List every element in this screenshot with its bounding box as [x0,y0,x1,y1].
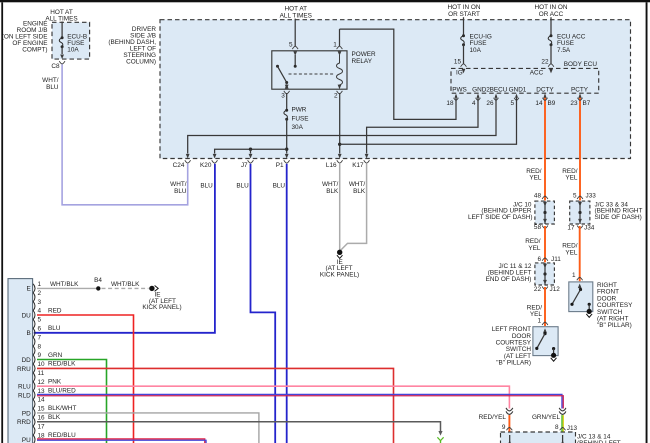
wire GRN/YEL into J/C 13-14 pin 8 [561,415,563,431]
svg-text:YEL: YEL [565,250,578,257]
left front door courtesy switch internals [543,328,547,333]
fuse ECU-B 10A [61,36,64,39]
svg-text:YEL: YEL [528,245,541,252]
svg-text:GRN/YEL: GRN/YEL [532,414,561,421]
svg-text:YEL: YEL [529,175,542,182]
svg-text:RRU: RRU [17,366,31,373]
wire pin10 RED/BLK [37,368,394,443]
svg-text:10: 10 [38,361,46,368]
svg-text:BLK: BLK [353,188,366,195]
svg-text:C24: C24 [173,162,185,169]
svg-text:DCTY: DCTY [536,87,554,94]
svg-text:18: 18 [446,100,454,107]
J/C 11 and 12 dashed box [535,263,555,285]
svg-text:5: 5 [289,41,293,48]
J/C 10 entry pin 48 [542,196,548,199]
wire GND1 pin5 to L16 vertical junction [340,96,517,145]
wire RED/YEL J/C34 to right switch [579,226,581,281]
page frame right bar [646,2,648,443]
svg-text:IG: IG [456,70,463,77]
J/C 13-14 internal entry arrows [509,435,511,443]
svg-text:GND2: GND2 [472,87,490,94]
svg-text:LEFT SIDE OF DASH): LEFT SIDE OF DASH) [468,214,533,221]
svg-text:J33: J33 [586,193,597,200]
svg-text:12: 12 [38,379,46,386]
svg-text:1: 1 [38,281,42,288]
svg-text:2: 2 [334,93,338,100]
svg-text:BLK: BLK [48,414,61,421]
svg-text:10A: 10A [67,47,79,54]
wire bus to K20 and J7 [215,149,287,153]
svg-text:COMPT): COMPT) [22,47,47,54]
svg-text:J7: J7 [241,162,248,169]
svg-text:PNK: PNK [48,379,62,386]
wire pin16 BLK [37,422,441,432]
svg-text:BLU: BLU [200,183,213,190]
svg-text:3: 3 [281,93,285,100]
svg-text:B: B [27,330,31,337]
relay pin 2 exit [338,85,342,90]
wire PWS pin18 loop to relay pin 1 [340,29,457,119]
svg-text:GRN: GRN [48,352,63,359]
svg-text:RED/BLK: RED/BLK [48,361,76,368]
svg-text:"B" PILLAR): "B" PILLAR) [496,360,531,367]
PCTY pin arrow over wire [579,94,582,98]
J/C 33-34 internal wire [579,201,581,224]
wire to ECU ACC fuse [550,17,552,35]
svg-text:OR START: OR START [448,11,480,18]
svg-text:KICK PANEL): KICK PANEL) [142,304,181,311]
svg-text:PCTY: PCTY [571,87,589,94]
fuse PWR 30A [285,109,288,112]
svg-text:6: 6 [537,256,541,263]
wire RED/YEL J/C12 to left switch [544,287,546,326]
wire WHT/BLU from C8 down right and up to C24 [62,64,188,204]
J/C 13 and 14 dashed box (cut at bottom) [501,432,576,443]
ground at left switch [551,353,556,358]
connector row arrows at J/B bottom edge [186,154,190,159]
left front door courtesy switch box [533,327,558,356]
wire fuse to C8 with arrow [61,47,63,54]
svg-text:BLK/WHT: BLK/WHT [48,405,77,412]
svg-text:5: 5 [38,317,42,324]
ground IE at left kick panel (L16/K17) [337,250,342,255]
J/C 11-12 internal wire [544,263,546,285]
wire pin15 BLK/WHT [37,413,259,443]
svg-text:RLD: RLD [18,393,31,400]
svg-text:7.5A: 7.5A [557,47,571,54]
svg-text:B9: B9 [548,100,556,107]
svg-text:FUSE: FUSE [292,115,309,122]
svg-text:RLU: RLU [18,384,31,391]
pin 4 GND2 exit [477,94,480,98]
wire RED/YEL into J/C 13-14 pin 9 [508,415,510,431]
svg-text:SIDE OF DASH): SIDE OF DASH) [595,214,642,221]
svg-text:BLU: BLU [236,183,249,190]
svg-text:17: 17 [567,225,575,232]
J/C 33-34 entry pin 5 J33 [577,196,583,199]
wire WHT/BLK from K17 joining L16 [341,164,367,251]
svg-text:WHT/BLK: WHT/BLK [111,281,140,288]
svg-text:7: 7 [38,334,42,341]
ground IE at left kick panel (B4) [149,286,154,291]
svg-text:GND1: GND1 [509,87,527,94]
power relay box [272,51,347,89]
svg-text:48: 48 [534,193,542,200]
svg-text:17: 17 [38,423,46,430]
svg-text:DD: DD [22,357,32,364]
svg-text:1: 1 [572,272,576,279]
body ECU dashed box [451,68,599,93]
svg-text:30A: 30A [292,124,304,131]
pin 26 BECU exit [495,94,498,98]
wire RED/YEL PCTY down to J/C 33-34 [579,96,581,201]
svg-text:RED/BLU: RED/BLU [48,432,76,439]
J/C 10 internal wire and junction [544,201,546,224]
svg-text:KICK PANEL): KICK PANEL) [320,272,359,279]
svg-text:58: 58 [534,224,542,231]
wire to ECU-IG fuse [463,17,465,35]
wire BLU from P1 down to bottom [286,164,288,443]
svg-text:COLUMN): COLUMN) [126,59,156,66]
svg-text:J34: J34 [584,225,595,232]
svg-text:13: 13 [38,388,46,395]
svg-text:B4: B4 [94,277,102,284]
svg-text:ALL TIMES: ALL TIMES [280,12,312,19]
svg-text:16: 16 [38,415,46,422]
svg-text:J13: J13 [567,425,578,432]
fuse ECU ACC 7.5A [550,34,553,37]
svg-text:PWS: PWS [452,87,467,94]
wire relay pin3 to PWR fuse [286,93,288,109]
svg-text:BLU: BLU [273,183,286,190]
engine room J/B dashed box [52,22,90,59]
svg-text:BLU: BLU [174,188,187,195]
connector C8 bracket [59,61,65,64]
svg-text:L16: L16 [326,162,337,169]
svg-text:BLU: BLU [48,325,61,332]
pin 23 B7 PCTY exit [579,94,582,98]
relay switch contacts [294,55,296,66]
svg-text:YEL: YEL [565,175,578,182]
svg-text:11: 11 [38,370,45,377]
wire pin18 RED/BLU [37,439,205,443]
svg-text:P1: P1 [276,162,284,169]
right front door courtesy switch internals [578,284,582,289]
wire pin4 RED [37,315,134,443]
wire pin12 PNK [37,386,509,408]
svg-text:J12: J12 [550,286,561,293]
svg-text:15: 15 [454,58,462,65]
svg-text:15: 15 [38,406,46,413]
svg-text:BLU: BLU [46,84,59,91]
svg-text:ALL TIMES: ALL TIMES [45,15,77,22]
node B4 [96,286,100,290]
svg-text:END OF DASH): END OF DASH) [486,276,532,283]
relay pin 1 wire from PWS loop [339,29,341,46]
svg-text:18: 18 [38,432,46,439]
svg-text:B7: B7 [583,100,591,107]
svg-text:1: 1 [537,318,541,325]
svg-text:K20: K20 [200,162,212,169]
svg-text:26: 26 [486,100,494,107]
svg-text:RELAY: RELAY [352,58,373,65]
svg-text:4: 4 [38,308,42,315]
svg-text:E: E [27,286,31,293]
DCTY pin arrow over wire [544,94,547,98]
svg-text:9: 9 [502,424,506,431]
right front door courtesy switch box [569,282,593,312]
wire pin13 BLU/RED [37,394,562,408]
wire RED/YEL J/C10 to J/C11-12 [544,226,546,262]
svg-text:K17: K17 [352,162,364,169]
wire pin1 WHT/BLK to node B4 [37,287,96,289]
wire WHT/BLK dashed from B4 to ground [102,287,149,289]
svg-text:ACC: ACC [530,70,544,77]
J/C 10 dashed box [535,201,555,224]
svg-text:14: 14 [535,100,543,107]
relay pin 3 exit [285,84,289,89]
driver side J/B dashed box [160,20,631,159]
svg-text:8: 8 [555,424,559,431]
svg-text:6: 6 [38,326,42,333]
page frame left bar [1,2,3,443]
pin 5 GND1 exit [515,94,518,98]
svg-text:5: 5 [573,193,577,200]
svg-text:9: 9 [38,352,42,359]
fuse ECU-IG 10A [462,34,465,37]
svg-text:C8: C8 [51,63,60,70]
svg-text:1: 1 [333,41,337,48]
svg-text:RED/YEL: RED/YEL [479,414,507,421]
BLK wire end arrow and green continuation chevron [438,431,442,436]
wire BLU from J7 down with jog [251,164,276,443]
svg-text:PWR: PWR [292,107,307,114]
wire relay pin2 down to L16 [339,93,341,154]
svg-text:2: 2 [38,290,42,297]
relay coil [337,55,343,85]
svg-text:BLK: BLK [326,188,339,195]
svg-text:DU: DU [22,312,32,319]
wire WHT/BLK from L16 to ground IE [339,164,341,250]
svg-text:J11: J11 [551,256,561,263]
left strip pin brackets and numbers [33,284,35,443]
svg-text:WHT/BLK: WHT/BLK [50,281,79,288]
wire ECU-IG fuse to pin 15 IG [463,45,465,64]
left connector strip [8,279,33,443]
svg-text:BODY ECU: BODY ECU [564,61,598,68]
wire pin9 GRN [37,360,107,443]
wire hot feed into ECU-B fuse [61,22,63,38]
page frame top bar [0,0,650,2]
chevron splice on BLU/RED wire [559,408,566,415]
svg-text:PU: PU [22,437,31,443]
svg-text:22: 22 [534,286,542,293]
svg-text:8: 8 [38,343,42,350]
wire hot feed to relay pin 5 [294,19,296,46]
svg-text:RRD: RRD [17,419,31,426]
pin 14 B9 DCTY exit [544,94,547,98]
wire PWR fuse down to P1 with junction [286,119,288,153]
svg-text:"B" PILLAR): "B" PILLAR) [597,322,632,329]
ground at right switch [587,309,592,314]
wire BLU from K20 down and left to strip pin 6 [34,164,215,333]
wire GND2 pin4 to K17 [367,96,478,154]
svg-text:PD: PD [22,410,31,417]
wire RED/YEL DCTY down to J/C 10 [544,96,546,201]
svg-text:3: 3 [38,299,42,306]
J/C 33 and 34 dashed box [570,201,590,224]
svg-text:14: 14 [38,397,46,404]
svg-text:10A: 10A [470,47,482,54]
svg-text:5: 5 [510,100,514,107]
svg-text:22: 22 [541,58,549,65]
svg-text:4: 4 [472,100,476,107]
svg-text:BLU/RED: BLU/RED [48,387,76,394]
J/C 11-12 entry pin 6 J11 [542,258,548,261]
svg-text:RED: RED [48,307,62,314]
relay internal dashed link [289,73,335,75]
svg-text:23: 23 [570,100,578,107]
wire BECU pin26 to C24 [188,96,496,154]
wire ECU ACC fuse to pin 22 ACC [550,45,552,64]
pin 18 PWS exit [455,94,458,98]
chevron splice on PNK wire [506,408,513,415]
svg-text:BECU: BECU [490,87,508,94]
svg-text:OR ACC: OR ACC [539,11,564,18]
